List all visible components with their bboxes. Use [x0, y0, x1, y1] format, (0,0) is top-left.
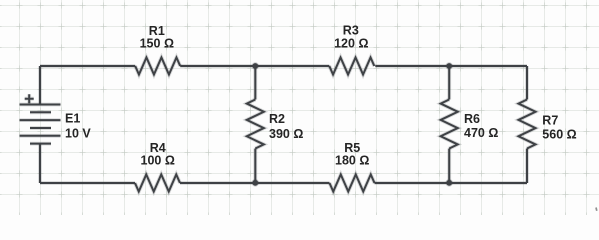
- svg-text:R7: R7: [542, 114, 558, 128]
- circuit stroke main pass: [20, 58, 536, 192]
- svg-text:390 Ω: 390 Ω: [269, 127, 303, 141]
- node junction bottom R6: [445, 179, 453, 187]
- node junction top R2: [252, 62, 260, 70]
- svg-text:470 Ω: 470 Ω: [464, 126, 498, 140]
- svg-text:R3: R3: [343, 24, 359, 38]
- node junction top R6: [445, 62, 453, 70]
- svg-text:180 Ω: 180 Ω: [335, 154, 369, 168]
- svg-text:100 Ω: 100 Ω: [141, 154, 175, 168]
- circuit stroke halo pass (soft edges): [20, 58, 536, 192]
- svg-text:E1: E1: [65, 112, 80, 126]
- svg-text:150 Ω: 150 Ω: [140, 37, 174, 51]
- svg-text:120 Ω: 120 Ω: [334, 37, 368, 51]
- svg-text:R6: R6: [464, 112, 480, 126]
- svg-text:560 Ω: 560 Ω: [542, 127, 576, 141]
- svg-text:10 V: 10 V: [65, 126, 91, 140]
- stray mark bottom right: [595, 208, 598, 211]
- node junction bottom R2: [252, 179, 260, 187]
- svg-text:R2: R2: [269, 112, 285, 126]
